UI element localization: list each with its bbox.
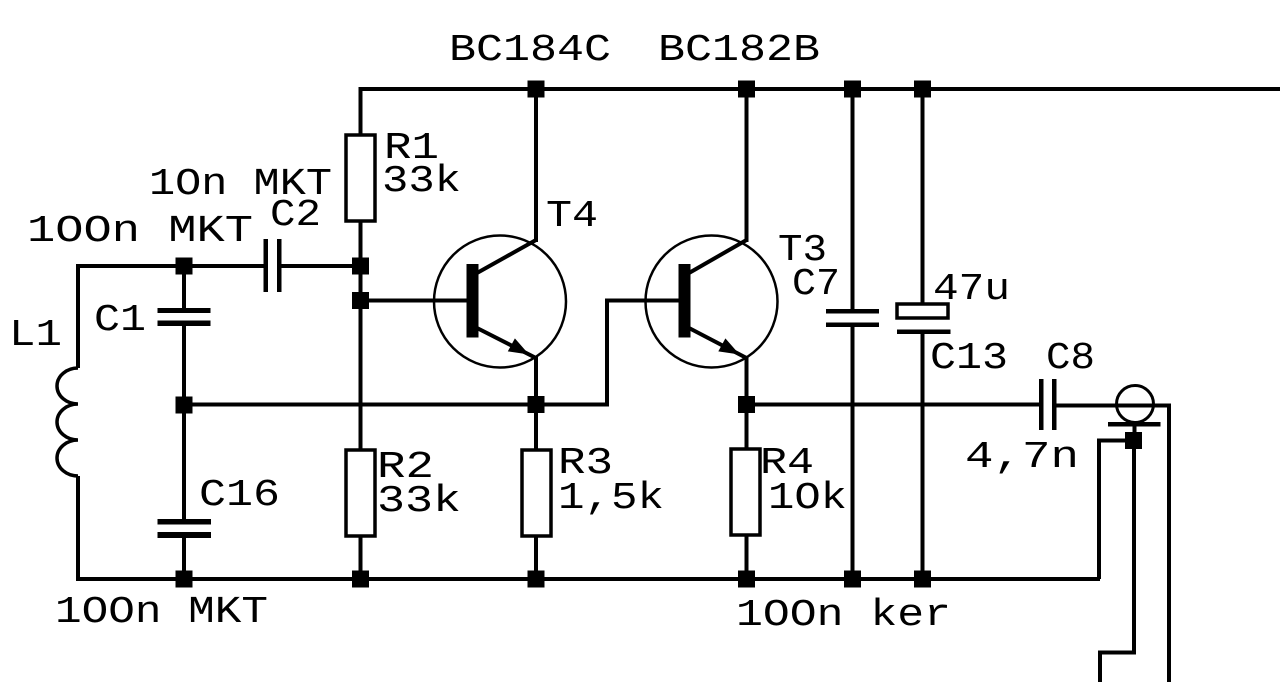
wire C1 top lead — [182, 266, 186, 309]
node C7 / rail — [844, 81, 861, 98]
wire R1/R2 vertical branch — [359, 221, 363, 451]
resistor R2 — [346, 450, 375, 536]
svg-text:T4: T4 — [546, 195, 598, 238]
svg-text:BC182B: BC182B — [658, 29, 820, 72]
wire top supply rail — [359, 87, 1280, 91]
wire jack ground left to rail — [1099, 441, 1134, 580]
svg-text:1Ok: 1Ok — [768, 477, 847, 520]
wire C2 to node — [281, 264, 360, 268]
wire bottom ground rail — [78, 577, 1100, 579]
wire T3 collector riser — [745, 89, 749, 242]
node T3 collector / rail — [738, 81, 755, 98]
node T4 base tap — [352, 292, 369, 309]
svg-text:C7: C7 — [792, 263, 840, 306]
capacitor C2 — [264, 239, 282, 292]
node ground C16 — [176, 571, 193, 588]
svg-text:C13: C13 — [930, 337, 1008, 380]
wire R3 bottom lead — [534, 535, 538, 579]
wire input line — [78, 266, 264, 268]
svg-text:47u: 47u — [933, 268, 1010, 311]
node ground R4 — [738, 571, 755, 588]
wire C13 bottom lead — [921, 333, 925, 579]
wire R2 bottom lead — [359, 536, 363, 579]
wire C16 bottom lead — [182, 537, 186, 579]
wire mid feedback line to T3 base — [184, 301, 679, 405]
transistor T3 — [646, 236, 778, 368]
wire T4 base lead — [361, 299, 468, 303]
node T4 emitter / R3 — [528, 396, 545, 413]
inductor L1 — [57, 368, 78, 476]
svg-text:1OOn MKT: 1OOn MKT — [55, 591, 268, 634]
capacitor C8 — [1039, 379, 1057, 430]
capacitor C16 — [158, 519, 212, 538]
wire L1 top lead — [76, 266, 80, 368]
wire C13 top lead — [921, 89, 925, 305]
node T4 collector / rail — [528, 81, 545, 98]
node T3 emitter / R4 — [738, 396, 755, 413]
capacitor C7 — [826, 309, 879, 327]
node ground R3 — [528, 571, 545, 588]
svg-text:1,5k: 1,5k — [558, 477, 664, 520]
output jack connector — [1108, 386, 1161, 442]
svg-text:C8: C8 — [1046, 337, 1095, 380]
node ground C7 — [844, 571, 861, 588]
svg-text:33k: 33k — [382, 160, 461, 203]
node ground R2 — [352, 571, 369, 588]
resistor R1 — [346, 135, 375, 221]
capacitor C13 electrolytic — [897, 304, 951, 334]
wire C7 bottom lead — [851, 326, 855, 579]
wire T4 collector riser — [534, 89, 538, 242]
wire jack ground bottom drop — [1100, 441, 1134, 682]
node C13 / rail — [914, 81, 931, 98]
wire R4 bottom lead — [745, 535, 749, 579]
wire R3 top lead — [534, 405, 538, 451]
wire C8 to jack and right drop — [1056, 406, 1169, 682]
wire L1 bottom lead — [76, 476, 80, 579]
node jack sleeve — [1125, 432, 1142, 449]
wire R1 top lead — [359, 87, 363, 135]
svg-text:4,7n: 4,7n — [965, 436, 1079, 479]
svg-text:BC184C: BC184C — [449, 29, 611, 72]
svg-text:C16: C16 — [199, 474, 280, 517]
wire R4 top lead — [745, 405, 749, 450]
wire C7 top lead — [851, 89, 855, 310]
svg-text:33k: 33k — [377, 480, 461, 523]
node C2 / R1 — [352, 258, 369, 275]
wire C1 bottom lead — [182, 325, 186, 405]
wire T3 emitter drop — [745, 356, 749, 405]
svg-text:1OOn MKT: 1OOn MKT — [27, 210, 253, 253]
svg-text:L1: L1 — [9, 314, 62, 357]
node C1 / C16 / feedback — [176, 397, 193, 414]
wire T4 emitter drop — [534, 356, 538, 405]
resistor R3 — [522, 450, 551, 536]
resistor R4 — [731, 449, 760, 535]
svg-text:C2: C2 — [270, 194, 321, 237]
node input / C1 — [176, 258, 193, 275]
wire C16 top lead — [182, 405, 186, 520]
node ground C13 — [914, 571, 931, 588]
svg-text:C1: C1 — [94, 299, 146, 342]
transistor T4 — [434, 236, 566, 368]
capacitor C1 — [158, 308, 211, 326]
wire output line to C8 — [747, 403, 1040, 407]
svg-text:1OOn ker: 1OOn ker — [736, 594, 951, 637]
